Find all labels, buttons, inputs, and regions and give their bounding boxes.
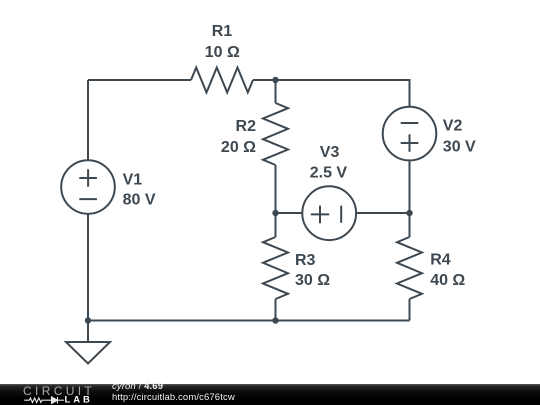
resistor R2 bbox=[263, 103, 288, 165]
label R2 value bbox=[221, 118, 256, 156]
svg-text:20 Ω: 20 Ω bbox=[221, 139, 256, 156]
wire top-right: R1 to V2 top bbox=[253, 80, 410, 107]
svg-text:80 V: 80 V bbox=[123, 192, 156, 209]
svg-text:30 Ω: 30 Ω bbox=[295, 272, 330, 289]
voltage source V1 bbox=[61, 160, 115, 214]
node: right junction V3/V2/R4 bbox=[406, 210, 412, 216]
svg-text:V3: V3 bbox=[320, 144, 340, 161]
node: bottom junction R3 bbox=[272, 317, 278, 323]
svg-text:2.5 V: 2.5 V bbox=[310, 165, 348, 182]
label R4 value bbox=[430, 251, 465, 289]
node: top junction R1/R2 bbox=[272, 77, 278, 83]
wire middle-right: V3 to right node bbox=[356, 212, 409, 214]
footer bar bbox=[0, 384, 540, 405]
node: middle junction R2/R3/V3 bbox=[272, 210, 278, 216]
wire R2 to middle node bbox=[275, 165, 277, 213]
wire R3 to bottom node bbox=[275, 299, 277, 321]
wire right node to R3 bbox=[275, 213, 277, 237]
wire R4 to bottom wire bbox=[409, 299, 411, 321]
wire right rail: node to R4 bbox=[409, 213, 411, 237]
credit text bbox=[112, 382, 235, 403]
svg-text:R3: R3 bbox=[295, 252, 316, 269]
svg-text:40 Ω: 40 Ω bbox=[430, 272, 465, 289]
svg-text:R4: R4 bbox=[430, 251, 451, 268]
node: ground junction bbox=[85, 317, 91, 323]
svg-text:10 Ω: 10 Ω bbox=[205, 44, 240, 61]
resistor R1 bbox=[191, 68, 253, 93]
label R1 value bbox=[205, 23, 240, 61]
voltage source V3 bbox=[302, 186, 356, 240]
wire top-left: V1 top to R1 bbox=[88, 79, 191, 81]
wire bottom net bbox=[88, 320, 410, 322]
ground bbox=[66, 321, 110, 364]
wire V2 bottom to right node bbox=[409, 160, 411, 213]
svg-text:30 V: 30 V bbox=[443, 138, 476, 155]
label V1 value bbox=[123, 172, 156, 209]
resistor R3 bbox=[263, 237, 288, 299]
wire left rail upper: corner to V1 bbox=[87, 80, 89, 160]
label V3 value bbox=[310, 144, 348, 182]
svg-text:R1: R1 bbox=[212, 23, 233, 40]
svg-text:R2: R2 bbox=[236, 118, 257, 135]
wire middle-left: node to V3 bbox=[276, 212, 303, 214]
CircuitLab logo bbox=[0, 384, 110, 405]
voltage source V2 bbox=[383, 107, 437, 161]
label R3 value bbox=[295, 252, 330, 289]
svg-text:V2: V2 bbox=[443, 118, 463, 135]
resistor R4 bbox=[397, 237, 422, 299]
svg-text:LAB: LAB bbox=[65, 395, 93, 405]
wire left rail lower: V1 to ground node bbox=[87, 214, 89, 321]
wire R2 branch: top node to R2 bbox=[275, 80, 277, 103]
label V2 value bbox=[443, 118, 476, 156]
svg-text:V1: V1 bbox=[123, 172, 143, 189]
